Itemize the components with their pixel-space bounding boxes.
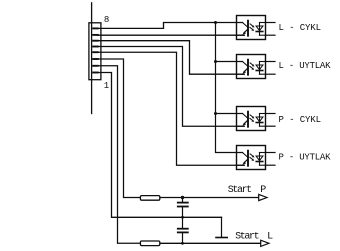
node dot B [214,60,217,63]
pin 6 dash [93,40,98,42]
svg-text:1: 1 [104,81,109,91]
Start L arrow [261,240,269,246]
capacitor C2 plates [178,229,188,233]
wire pin3 down to Start P row [98,59,141,198]
pin 7 dash [93,34,98,36]
common anode vertical wire to opto U4 anode [216,23,243,153]
capacitor C1 plates [178,203,188,207]
svg-text:Start: Start [228,185,253,196]
wire node to opto U2 LED anode [216,61,243,63]
svg-text:8: 8 [104,15,109,25]
pin 1 dash [93,72,98,74]
pin 5 dash [93,46,98,48]
capacitor column wire upper [182,198,184,203]
node dot cap mid [181,216,184,219]
Start L row wire [160,242,261,244]
wire pin6 to opto U2 LED cathode [98,41,245,74]
optocoupler U1 [237,16,276,40]
node dot A [214,21,217,24]
wire pin4 to opto U4 LED cathode [98,52,245,165]
junction dots [181,21,217,245]
svg-text:P: P [260,185,266,196]
connector pin dashes [93,28,98,72]
svg-text:P - CYKL: P - CYKL [279,115,322,125]
Start P row wire [160,197,259,199]
node dot C [214,112,217,115]
ground drop wire [221,217,223,237]
node dot cap C1 top [181,196,184,199]
optocoupler U3 [237,107,276,131]
capacitor column wire middle [182,207,184,228]
Start P arrow [259,194,267,200]
pin 2 dash [93,65,98,67]
svg-text:L - CYKL: L - CYKL [279,23,322,33]
svg-text:Start: Start [235,231,260,242]
pin 4 dash [93,51,98,53]
resistor R2 [140,241,159,246]
resistor R1 [140,196,159,201]
svg-text:L - UYTLAK: L - UYTLAK [279,61,332,71]
optocoupler U2 [237,55,276,79]
wire pin1 down to ground row [98,73,222,218]
wire pin8 to opto U1 LED anode, with step [98,23,243,29]
svg-text:L: L [267,231,273,242]
svg-text:P - UYTLAK: P - UYTLAK [279,153,332,163]
wire node to opto U3 LED anode [216,113,243,115]
capacitor column wire lower [182,233,184,244]
wire pin7 to opto U1 LED cathode [98,34,245,36]
pin 8 dash [93,27,98,29]
node dot cap C2 bottom [181,242,184,245]
connector J1 body [89,23,101,80]
wire pin5 to opto U3 LED cathode [98,47,245,127]
wire pin2 down to Start L row [98,66,141,244]
optocoupler U4 [237,146,276,170]
pin 3 dash [93,58,98,60]
connector J1 vertical line with dead-end stub [91,3,93,114]
ground bar [216,237,227,239]
